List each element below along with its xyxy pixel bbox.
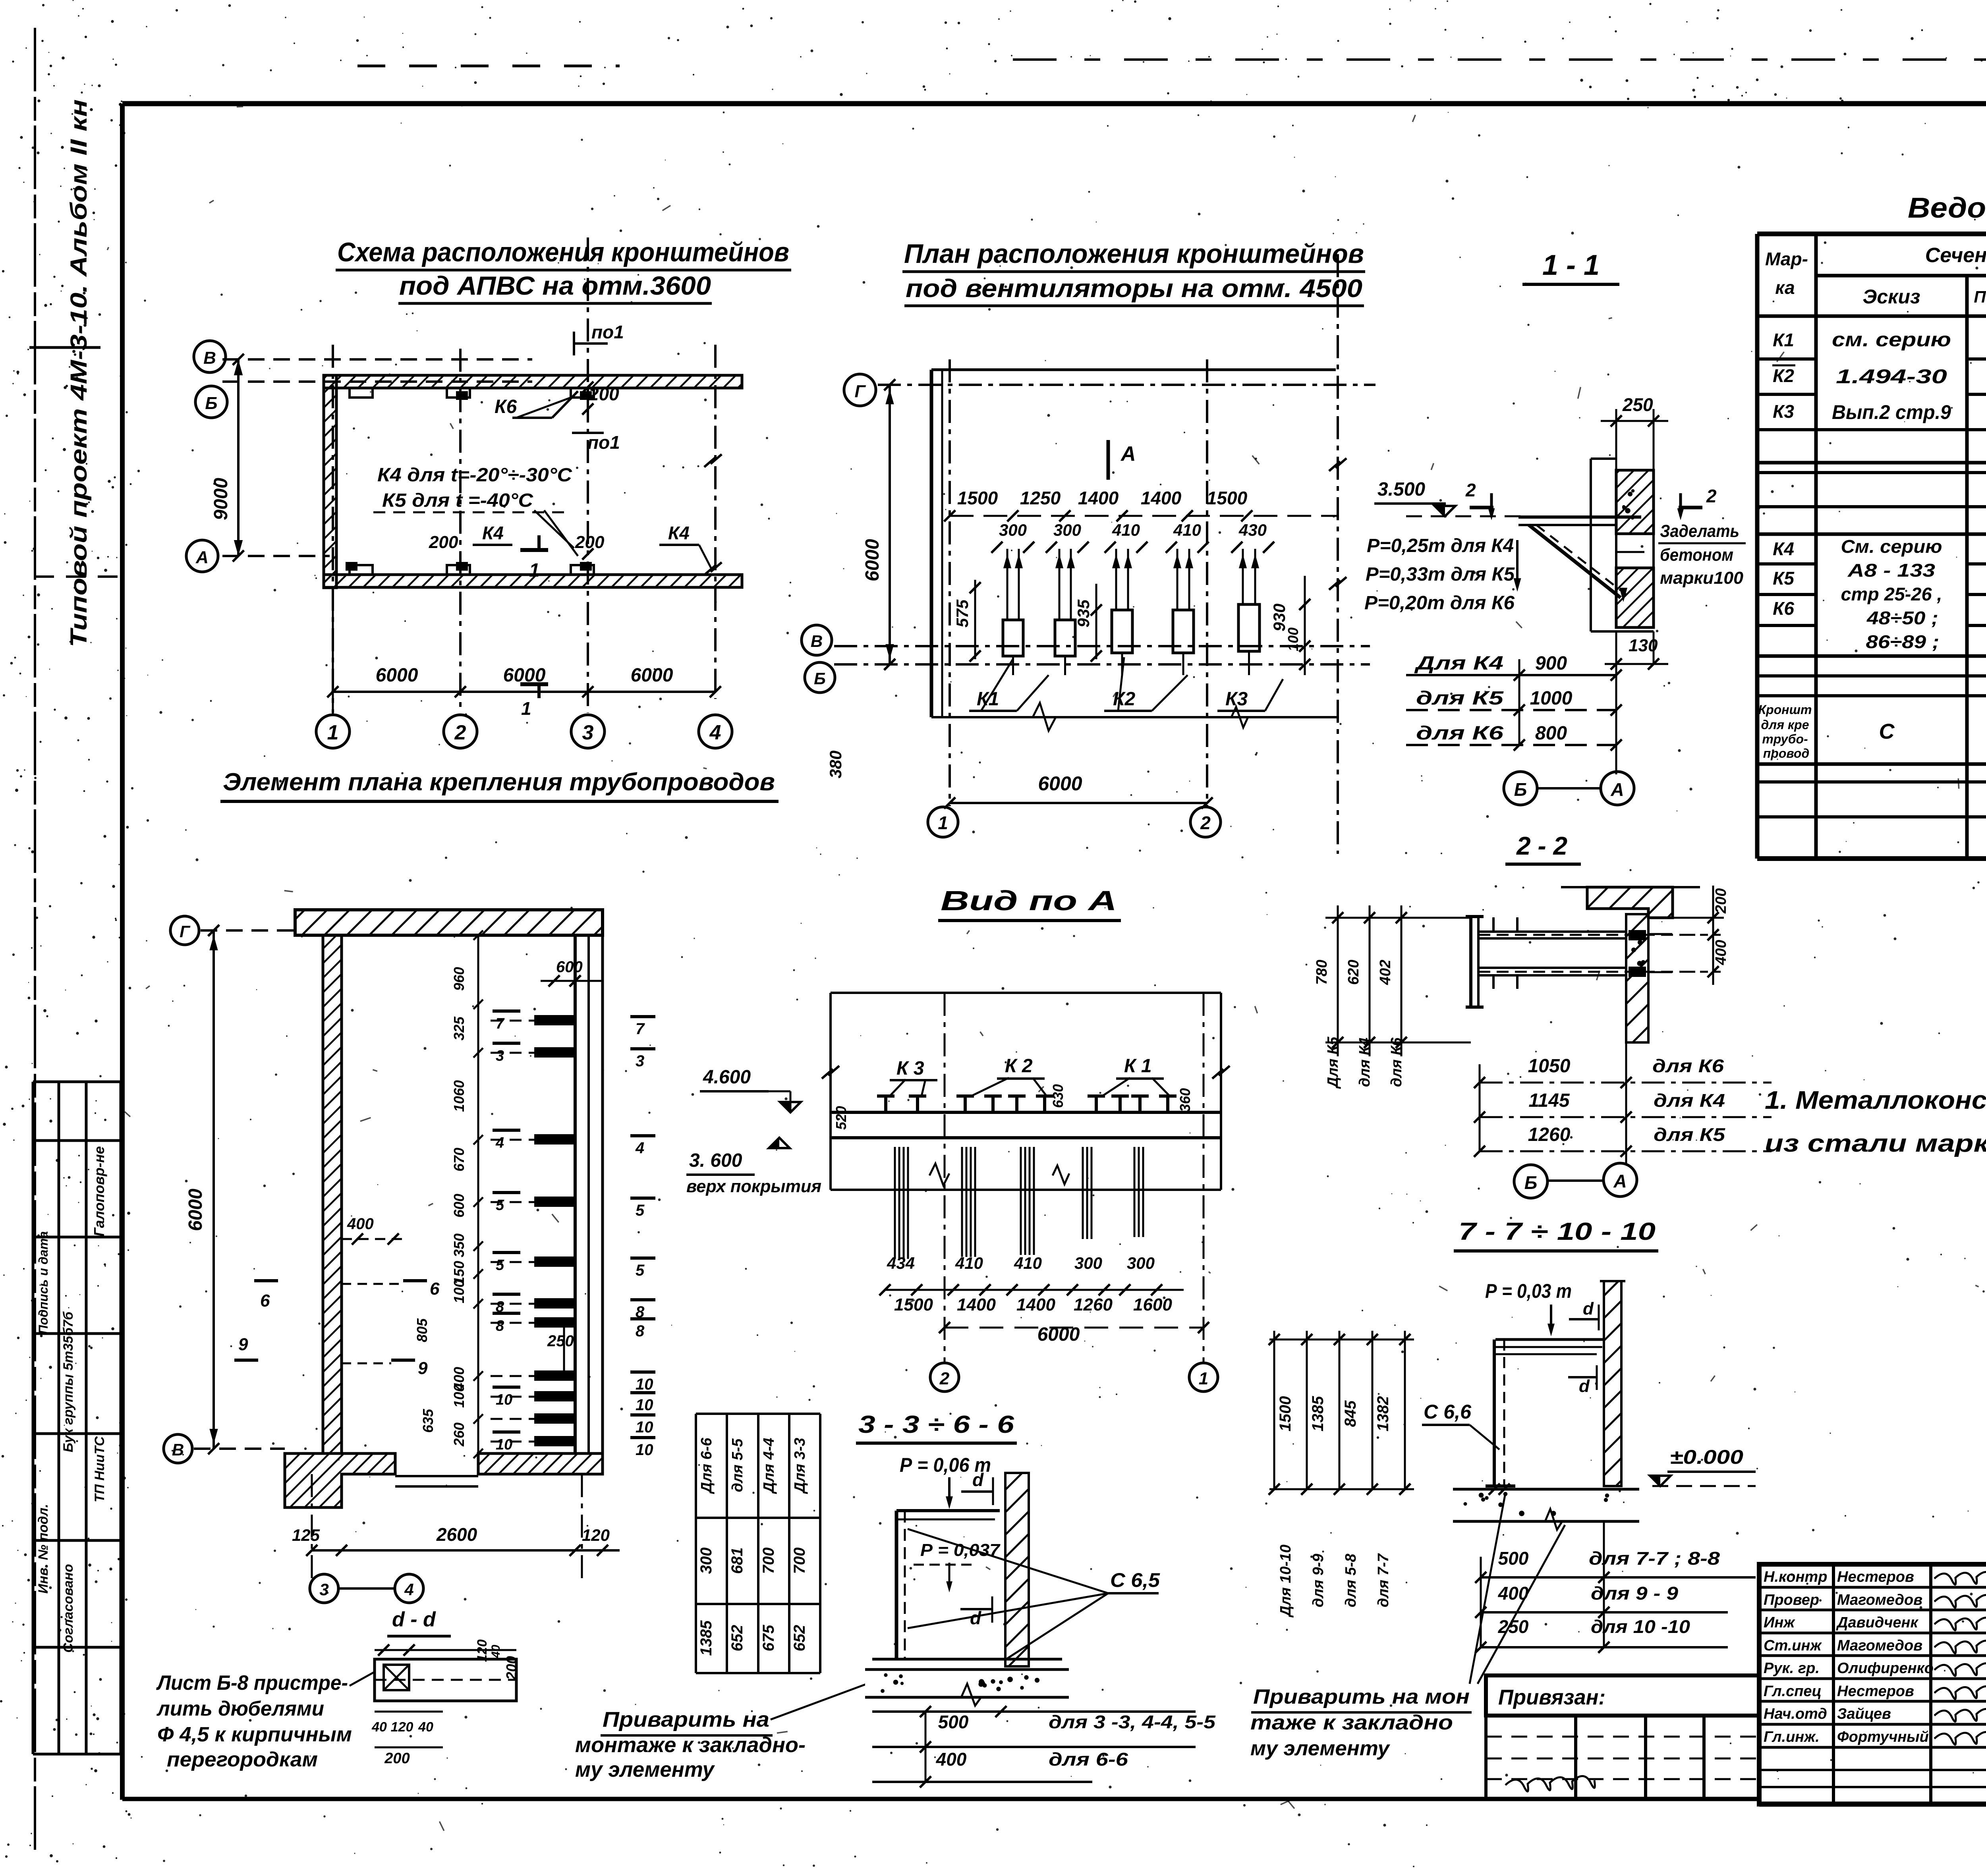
svg-text:К1: К1 [1773,330,1794,350]
svg-text:1600: 1600 [1133,1295,1172,1314]
svg-text:620: 620 [1345,960,1362,985]
svg-text:4: 4 [709,721,721,744]
svg-text:681: 681 [728,1548,746,1574]
svg-text:1060: 1060 [451,1080,467,1112]
svg-text:ТП НииТС: ТП НииТС [92,1436,107,1503]
svg-text:верх покрытия: верх покрытия [686,1177,821,1196]
svg-text:К6: К6 [495,396,517,417]
svg-text:К 3: К 3 [896,1058,924,1079]
svg-text:К4 для t=-20°÷-30°С: К4 для t=-20°÷-30°С [377,465,572,486]
svg-text:500: 500 [938,1712,969,1732]
svg-text:300: 300 [1053,521,1081,539]
svg-text:1000: 1000 [1530,688,1573,709]
svg-text:1400: 1400 [1078,488,1119,508]
svg-text:1400: 1400 [1016,1295,1055,1314]
svg-text:К5: К5 [1773,568,1795,589]
svg-text:по1: по1 [591,322,624,342]
svg-text:К2: К2 [1113,689,1136,710]
svg-text:652: 652 [791,1625,808,1652]
svg-text:600: 600 [556,958,583,976]
svg-text:2 - 2: 2 - 2 [1516,832,1567,860]
svg-text:200: 200 [575,533,605,552]
svg-text:675: 675 [760,1625,777,1651]
svg-text:700: 700 [791,1548,808,1574]
svg-text:1 - 1: 1 - 1 [1542,249,1600,281]
svg-text:100: 100 [451,1384,467,1408]
svg-text:4.600: 4.600 [703,1067,751,1088]
svg-text:410: 410 [955,1254,983,1272]
svg-text:К 2: К 2 [1005,1056,1033,1077]
svg-text:Для 10-10: Для 10-10 [1277,1544,1294,1617]
svg-text:Кроншт: Кроншт [1758,703,1812,717]
svg-text:1050: 1050 [1528,1056,1571,1077]
svg-text:К5 для t =-40°С: К5 для t =-40°С [382,490,533,511]
svg-text:Б: Б [205,394,217,413]
svg-text:Подпись и дата: Подпись и дата [36,1231,50,1334]
svg-text:1400: 1400 [1141,488,1182,508]
svg-text:10: 10 [496,1436,512,1453]
svg-text:А: А [1613,1171,1627,1191]
svg-text:Для 3-3: Для 3-3 [792,1438,808,1494]
svg-text:для К6: для К6 [1416,723,1503,744]
svg-text:1: 1 [938,813,948,833]
svg-text:Для 6-6: Для 6-6 [698,1438,715,1494]
svg-text:3. 600: 3. 600 [689,1150,742,1171]
svg-text:стр 25-26 ,: стр 25-26 , [1841,584,1942,604]
svg-text:1500: 1500 [1207,488,1248,508]
svg-text:Для К4: Для К4 [1414,653,1503,674]
svg-text:К6: К6 [1773,598,1794,619]
svg-text:Галоповр-не: Галоповр-не [91,1146,107,1236]
svg-text:Вид по А: Вид по А [941,885,1117,916]
svg-text:325: 325 [451,1016,467,1040]
svg-text:1500: 1500 [957,488,998,508]
svg-text:Нестеров: Нестеров [1837,1683,1914,1700]
svg-text:для 10 -10: для 10 -10 [1591,1616,1690,1637]
svg-text:для К5: для К5 [1654,1124,1726,1145]
svg-text:120: 120 [582,1526,610,1544]
svg-text:d - d: d - d [392,1608,436,1631]
svg-text:6000: 6000 [1037,1324,1080,1345]
svg-text:9: 9 [418,1359,428,1378]
svg-text:360: 360 [1177,1088,1193,1112]
svg-text:800: 800 [1535,723,1567,744]
svg-text:для 5-8: для 5-8 [1343,1554,1359,1608]
svg-text:Бук группы 5т35б7б: Бук группы 5т35б7б [61,1311,76,1452]
svg-text:В: В [203,348,216,368]
svg-text:845: 845 [1342,1400,1359,1427]
svg-text:86÷89 ;: 86÷89 ; [1866,631,1940,652]
svg-text:Зайцев: Зайцев [1837,1706,1891,1722]
svg-text:7: 7 [496,1015,505,1032]
svg-text:Заделать: Заделать [1660,521,1739,541]
svg-text:1400: 1400 [957,1295,996,1314]
svg-text:3: 3 [636,1052,644,1070]
svg-text:3: 3 [496,1048,504,1064]
svg-text:перегородкам: перегородкам [167,1748,318,1771]
svg-text:410: 410 [1014,1254,1042,1272]
svg-text:Р=0,25т для К4: Р=0,25т для К4 [1367,535,1514,556]
svg-text:250: 250 [547,1332,574,1350]
svg-text:Провер: Провер [1764,1592,1819,1608]
svg-text:Р=0,20т для К6: Р=0,20т для К6 [1364,593,1515,614]
svg-text:400: 400 [936,1749,967,1770]
svg-text:Приварить на мон: Приварить на мон [1253,1685,1470,1708]
svg-text:Мар-: Мар- [1765,249,1808,269]
svg-text:3 - 3 ÷ 6 - 6: 3 - 3 ÷ 6 - 6 [858,1411,1014,1438]
svg-text:С 6,6: С 6,6 [1424,1401,1472,1423]
svg-text:6000: 6000 [631,665,673,686]
svg-text:670: 670 [451,1148,467,1172]
svg-text:10: 10 [636,1376,653,1393]
svg-text:К 1: К 1 [1124,1056,1152,1077]
svg-text:40: 40 [418,1720,433,1735]
svg-text:8: 8 [636,1322,645,1340]
svg-text:3: 3 [319,1580,328,1599]
svg-text:125: 125 [292,1526,320,1544]
svg-text:А: А [1120,442,1136,465]
svg-text:для 6-6: для 6-6 [1049,1749,1128,1770]
svg-text:Схема расположения кронштейнов: Схема расположения кронштейнов [337,237,789,267]
svg-text:1.494-30: 1.494-30 [1836,365,1947,388]
svg-text:575: 575 [953,599,972,627]
svg-text:10: 10 [496,1392,512,1408]
svg-text:Поз: Поз [1974,288,1986,306]
svg-text:марки100: марки100 [1660,568,1744,588]
svg-text:Н.контр: Н.контр [1764,1569,1827,1585]
svg-text:300: 300 [999,521,1027,539]
svg-text:Нестеров: Нестеров [1837,1569,1914,1585]
svg-text:400: 400 [347,1215,374,1233]
svg-text:10: 10 [636,1396,653,1414]
svg-text:В: В [811,632,823,650]
svg-text:d: d [1583,1299,1594,1318]
svg-text:500: 500 [1498,1548,1529,1569]
svg-text:Б: Б [1514,779,1527,800]
svg-text:260: 260 [451,1422,467,1447]
svg-text:К2: К2 [1773,365,1794,386]
svg-text:для К6: для К6 [1652,1056,1724,1076]
svg-text:Для К5: Для К5 [1325,1036,1341,1089]
svg-text:1382: 1382 [1374,1396,1392,1432]
svg-text:Магомедов: Магомедов [1837,1637,1922,1654]
svg-text:434: 434 [887,1254,915,1272]
svg-text:4: 4 [495,1135,504,1151]
svg-text:1385: 1385 [1309,1396,1327,1432]
svg-text:для 7-7 ; 8-8: для 7-7 ; 8-8 [1589,1548,1720,1569]
svg-text:Б: Б [1524,1172,1538,1193]
svg-text:К3: К3 [1225,689,1248,710]
svg-text:100: 100 [451,1280,467,1303]
svg-text:930: 930 [1270,604,1289,631]
svg-text:380: 380 [826,751,845,778]
svg-text:630: 630 [1050,1084,1066,1108]
svg-text:ка: ка [1775,277,1795,298]
svg-text:для 7-7: для 7-7 [1375,1553,1392,1608]
svg-text:для К4: для К4 [1356,1038,1373,1087]
svg-text:3.500: 3.500 [1377,479,1425,500]
svg-text:350: 350 [451,1233,467,1257]
svg-text:5: 5 [636,1262,645,1279]
svg-text:для кре: для кре [1761,718,1809,732]
svg-text:2600: 2600 [436,1524,477,1545]
svg-text:Инж: Инж [1764,1614,1795,1631]
svg-text:6: 6 [260,1291,270,1310]
svg-text:Олифиренко: Олифиренко [1837,1660,1934,1677]
svg-text:для 3 -3, 4-4, 5-5: для 3 -3, 4-4, 5-5 [1049,1712,1216,1732]
svg-text:1: 1 [1199,1369,1208,1388]
svg-text:Инв. № подл.: Инв. № подл. [36,1504,51,1594]
svg-text:1385: 1385 [697,1620,715,1656]
svg-text:1250: 1250 [1020,488,1061,508]
svg-text:7: 7 [636,1020,645,1038]
svg-text:В: В [172,1440,184,1459]
svg-text:2: 2 [939,1369,950,1388]
svg-text:300: 300 [1074,1254,1102,1272]
svg-text:2: 2 [454,721,466,744]
svg-text:Эскиз: Эскиз [1862,286,1920,308]
svg-text:К4: К4 [1773,538,1794,559]
svg-text:40: 40 [489,1644,502,1658]
svg-text:d: d [972,1469,984,1490]
svg-text:805: 805 [414,1318,430,1342]
svg-text:1260: 1260 [1528,1124,1571,1145]
svg-text:под АПВС на отм.3600: под АПВС на отм.3600 [399,271,711,300]
svg-text:120: 120 [391,1720,413,1735]
svg-text:К4: К4 [482,523,504,543]
svg-text:935: 935 [1074,599,1093,627]
svg-text:лить дюбелями: лить дюбелями [156,1697,324,1720]
svg-text:Типовой проект 4М-3-10. Альбом: Типовой проект 4М-3-10. Альбом II кн [66,99,92,647]
svg-text:1500: 1500 [894,1295,933,1314]
svg-text:5: 5 [496,1197,504,1214]
svg-text:1145: 1145 [1528,1090,1570,1111]
svg-text:9: 9 [238,1335,248,1354]
svg-text:таже к закладно: таже к закладно [1250,1711,1453,1734]
svg-text:К3: К3 [1773,401,1794,422]
svg-text:Давидченк: Давидченк [1836,1614,1918,1631]
svg-text:А8 - 133: А8 - 133 [1847,560,1936,581]
svg-text:му элементу: му элементу [1250,1737,1391,1760]
svg-text:2: 2 [1200,813,1211,833]
svg-text:для К4: для К4 [1654,1090,1725,1111]
svg-text:Гл.инж.: Гл.инж. [1764,1729,1820,1745]
svg-text:120: 120 [475,1639,490,1662]
svg-text:1: 1 [529,560,540,581]
svg-text:1: 1 [521,698,531,719]
svg-text:Привязан:: Привязан: [1498,1685,1605,1709]
svg-text:Согласовано: Согласовано [61,1564,76,1653]
svg-text:6000: 6000 [1038,772,1082,795]
svg-text:Вып.2 стр.9: Вып.2 стр.9 [1832,401,1951,423]
svg-text:См. серию: См. серию [1841,536,1942,557]
svg-text:Приварить на: Приварить на [603,1708,769,1731]
svg-text:6000: 6000 [185,1189,206,1231]
svg-text:7 - 7 ÷ 10 - 10: 7 - 7 ÷ 10 - 10 [1459,1218,1656,1245]
svg-text:2: 2 [1465,480,1476,500]
svg-text:40: 40 [371,1720,387,1735]
svg-text:Р=0,33т для К5: Р=0,33т для К5 [1366,564,1515,585]
svg-text:1260: 1260 [1074,1295,1113,1314]
svg-text:му элементу: му элементу [575,1758,715,1781]
svg-text:410: 410 [1173,521,1201,539]
svg-text:из стали марки В ст 3 кп 2 п: из стали марки В ст 3 кп 2 по ГОСТ 380-7… [1765,1130,1986,1157]
svg-text:100: 100 [1285,627,1301,651]
svg-text:С 6,5: С 6,5 [1110,1569,1160,1591]
svg-text:Р = 0,03 т: Р = 0,03 т [1485,1280,1572,1302]
svg-text:монтаже к закладно-: монтаже к закладно- [575,1733,806,1757]
svg-text:Ф 4,5 к кирпичным: Ф 4,5 к кирпичным [157,1723,352,1746]
svg-text:Ст.инж: Ст.инж [1764,1637,1822,1654]
svg-text:Фортучный: Фортучный [1837,1729,1929,1745]
svg-text:Сечение: Сечение [1925,244,1986,267]
svg-text:А: А [195,548,209,567]
svg-text:Нач.отд: Нач.отд [1764,1706,1827,1722]
svg-text:960: 960 [451,967,467,991]
svg-text:10: 10 [636,1441,653,1459]
svg-text:200: 200 [1713,888,1729,914]
svg-text:±0.000: ±0.000 [1670,1446,1743,1468]
svg-text:250: 250 [1622,394,1653,415]
svg-text:2: 2 [1706,486,1717,506]
svg-text:см. серию: см. серию [1832,328,1951,351]
svg-text:Рук. гр.: Рук. гр. [1764,1660,1820,1677]
svg-text:6000: 6000 [376,665,418,686]
svg-text:400: 400 [1713,940,1729,965]
svg-text:План расположения кронштейнов: План расположения кронштейнов [904,239,1364,269]
svg-text:Р = 0,037: Р = 0,037 [920,1540,1001,1560]
svg-text:1500: 1500 [1277,1396,1294,1432]
svg-text:10: 10 [636,1419,653,1436]
svg-text:5: 5 [496,1257,504,1274]
svg-text:4: 4 [635,1139,644,1157]
svg-text:А: А [1610,779,1624,800]
svg-text:С: С [1879,720,1895,743]
svg-text:402: 402 [1377,960,1394,985]
svg-text:635: 635 [420,1409,436,1433]
svg-text:4: 4 [404,1580,413,1599]
svg-text:780: 780 [1314,960,1330,985]
svg-text:для К5: для К5 [1416,688,1504,709]
svg-text:для 5-5: для 5-5 [729,1438,746,1492]
svg-text:200: 200 [384,1750,410,1767]
svg-text:200: 200 [503,1656,520,1680]
svg-text:1: 1 [327,721,339,744]
svg-text:430: 430 [1238,521,1267,539]
svg-text:48÷50 ;: 48÷50 ; [1866,608,1938,628]
svg-text:520: 520 [833,1106,849,1130]
svg-text:600: 600 [451,1194,467,1218]
svg-text:3: 3 [582,721,594,744]
svg-text:410: 410 [1112,521,1140,539]
svg-text:300: 300 [697,1548,715,1574]
svg-text:Б: Б [814,669,826,688]
svg-text:для 9-9: для 9-9 [1310,1554,1327,1608]
svg-text:бетоном: бетоном [1660,545,1733,565]
svg-text:Лист Б-8 пристре-: Лист Б-8 пристре- [156,1671,348,1695]
svg-text:8: 8 [496,1318,504,1334]
svg-text:для К6: для К6 [1388,1037,1405,1087]
svg-text:Г: Г [854,382,866,401]
svg-text:900: 900 [1535,653,1567,674]
svg-text:Г: Г [180,922,191,941]
svg-text:провод: провод [1763,746,1810,760]
svg-text:5: 5 [636,1202,645,1219]
svg-text:под вентиляторы на отм. 4500: под вентиляторы на отм. 4500 [906,274,1362,303]
svg-text:Элемент плана крепления трубоп: Элемент плана крепления трубопроводов [223,768,775,796]
svg-text:200: 200 [429,533,458,552]
svg-text:1. Металлоконструкции кронштей: 1. Металлоконструкции кронштейнов выполн… [1765,1086,1986,1114]
svg-text:700: 700 [760,1548,777,1574]
svg-text:Для 4-4: Для 4-4 [761,1438,777,1494]
svg-text:трубо-: трубо- [1762,732,1808,746]
svg-text:d: d [1579,1376,1590,1396]
svg-text:200: 200 [588,384,619,404]
svg-text:К4: К4 [668,523,690,543]
svg-text:300: 300 [1127,1254,1155,1272]
svg-text:Гл.спец: Гл.спец [1764,1683,1822,1700]
svg-text:6000: 6000 [862,539,883,581]
svg-text:6: 6 [430,1279,440,1299]
svg-text:Магомедов: Магомедов [1837,1592,1922,1608]
svg-text:по1: по1 [587,432,620,453]
svg-text:652: 652 [728,1625,746,1652]
